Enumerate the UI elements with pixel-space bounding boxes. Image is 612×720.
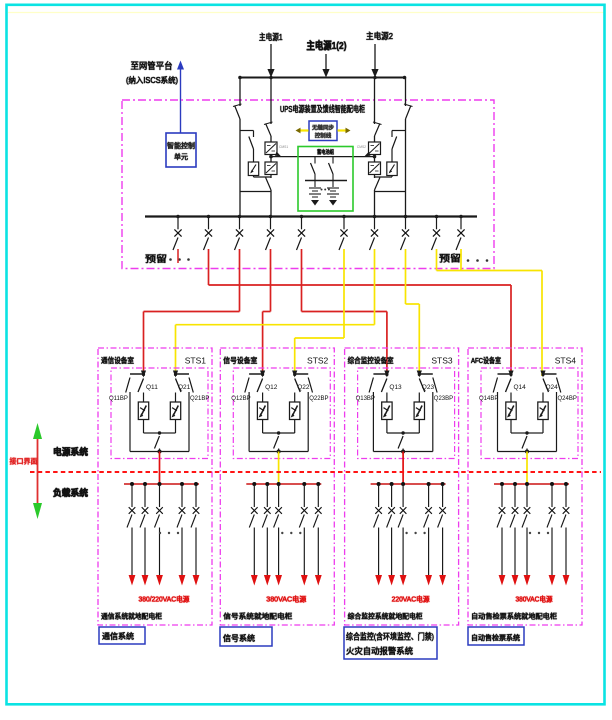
label (纳入ISCS系统) — [126, 75, 178, 85]
switch UPS1 static-bypass isolator — [249, 137, 254, 150]
svg-text:Q24: Q24 — [546, 384, 559, 391]
cabinet 1 outer dashed box — [98, 348, 212, 625]
svg-text:综合监控系统就地配电柜: 综合监控系统就地配电柜 — [348, 612, 423, 621]
cabinet 2 label 信号设备室 — [223, 355, 257, 365]
cabinet 4 branch breaker at x=515.0 — [510, 484, 518, 586]
svg-text:Q23BP: Q23BP — [434, 396, 453, 402]
svg-text:STS1: STS1 — [185, 356, 207, 366]
cabinet 1 STS output join — [144, 420, 176, 435]
cabinet 1 voltage label 380/220VAC电源 — [139, 595, 190, 604]
cabinet 3 branch breaker at x=428.6 — [424, 484, 432, 586]
cabinet 2 outer dashed box — [220, 348, 334, 625]
cabinet 3 branch breaker at x=378.6 — [374, 484, 382, 586]
cabinet 3 STS inner dashed box — [358, 368, 455, 459]
svg-text:主电源1(2): 主电源1(2) — [307, 39, 347, 52]
svg-text:Q22: Q22 — [297, 384, 310, 391]
cabinet 2 branch breaker at x=304.3 — [299, 484, 307, 586]
cabinet 2 label STS2 — [307, 356, 329, 366]
switch Q23 — [419, 379, 434, 403]
wire dc link bus — [271, 152, 375, 157]
cabinet 1 branch breaker at x=145.0 — [140, 484, 148, 586]
cabinet 3 branch ellipsis — [405, 532, 425, 534]
wire UPS1 main vertical — [270, 78, 272, 217]
svg-text:Q13: Q13 — [389, 384, 402, 391]
svg-text:STS4: STS4 — [555, 356, 577, 366]
feeder breaker at x=344 — [339, 217, 348, 251]
cabinet 1 output switch — [155, 436, 162, 454]
svg-text:Q24BP: Q24BP — [558, 396, 577, 402]
switch UPS1 input isolator — [264, 122, 273, 136]
svg-text:380VAC电源: 380VAC电源 — [266, 595, 306, 604]
svg-text:Q14BP: Q14BP — [479, 396, 498, 402]
wire UPS2 bypass vertical — [405, 78, 407, 217]
cabinet 2 STS inner dashed box — [233, 368, 330, 459]
switch Q13BP bypass — [356, 378, 375, 452]
cabinet 1 branch breaker at x=196.0 — [191, 484, 199, 586]
cabinet 4 branch ellipsis — [529, 532, 549, 534]
cabinet 2 bypass bottom rail — [249, 451, 308, 453]
sync control box 无缝同步控制线 — [309, 121, 337, 141]
svg-text:综合监控(含环境监控、门禁): 综合监控(含环境监控、门禁) — [346, 632, 434, 642]
faint yellow margin line — [8, 12, 604, 14]
dc node UPS1 — [269, 155, 273, 159]
interface arrow assembly — [33, 423, 42, 519]
label 至网管平台 — [131, 60, 173, 71]
svg-text:信号系统就地配电柜: 信号系统就地配电柜 — [223, 612, 292, 621]
cabinet 4 branch breaker at x=527.0 — [522, 484, 530, 586]
svg-text:单元: 单元 — [174, 152, 188, 161]
cabinet 3 input brackets — [373, 373, 432, 375]
svg-text:至网管平台: 至网管平台 — [131, 60, 173, 71]
cabinet 1 label STS1 — [185, 356, 207, 366]
intelligent control unit box 智能控制单元 — [166, 133, 196, 167]
wire source2 feed with arrow — [371, 44, 378, 78]
cabinet 3 voltage label 220VAC电源 — [392, 595, 430, 604]
switch Q24 — [543, 379, 558, 403]
wire source1 feed with arrow — [267, 44, 274, 78]
thyristor box Q12 — [257, 402, 267, 420]
svg-text:(纳入ISCS系统): (纳入ISCS系统) — [126, 75, 178, 85]
battery dc busbar — [305, 180, 347, 182]
cabinet 1 name label 通信系统就地配电柜 — [101, 612, 162, 621]
cabinet 3 output switch — [398, 436, 405, 454]
wire UPS1 bypass bottom tie — [240, 191, 271, 193]
switch UPS1 bypass isolator — [233, 104, 242, 119]
thyristor box Q24 — [538, 402, 548, 420]
UPS main cabinet dashed enclosure — [122, 100, 494, 269]
svg-text:火灾自动报警系统: 火灾自动报警系统 — [346, 646, 413, 656]
cabinet 3 system tag box — [344, 627, 437, 659]
label rectifier CMS2 — [357, 145, 366, 149]
svg-text:Q12: Q12 — [265, 384, 278, 391]
cabinet 1 branch breaker at x=182.0 — [177, 484, 185, 586]
cabinet 2 voltage label 380VAC电源 — [266, 595, 306, 604]
switch Q13 — [381, 379, 402, 403]
cabinet 1 output wire to LV bus — [159, 452, 161, 485]
yellow sync arrow left — [296, 128, 309, 134]
cabinet 4 bypass bottom rail — [498, 451, 557, 453]
battery bank box 蓄电池组 — [298, 147, 353, 212]
svg-text:AFC设备室: AFC设备室 — [471, 355, 501, 365]
label source 主电源1 — [259, 32, 283, 42]
cabinet 1 label 通信设备室 — [101, 355, 134, 365]
cabinet 4 STS inner dashed box — [481, 368, 578, 459]
switch Q12 — [257, 379, 278, 403]
cabinet 2 branch breaker at x=267.3 — [262, 484, 270, 586]
svg-text:蓄电池组: 蓄电池组 — [317, 148, 334, 156]
label source 主电源1(2) — [307, 39, 347, 52]
thyristor box Q21 — [170, 402, 180, 420]
svg-text:380VAC电源: 380VAC电源 — [516, 595, 553, 604]
cabinet 4 system tag box — [468, 627, 524, 645]
cabinet 2 branch breaker at x=318.3 — [313, 484, 321, 586]
label 预留 left — [145, 253, 190, 264]
svg-text:UPS电源装置及馈线智能配电柜: UPS电源装置及馈线智能配电柜 — [280, 104, 365, 114]
cabinet 4 label STS4 — [555, 356, 577, 366]
cabinet 1 system tag box — [99, 627, 145, 644]
svg-text:220VAC电源: 220VAC电源 — [392, 595, 430, 604]
wire UPS2 static-bypass branch — [392, 131, 406, 163]
rectifier box UPS2 — [369, 142, 381, 155]
svg-text:Q21BP: Q21BP — [190, 396, 209, 402]
svg-text:自动售检票系统: 自动售检票系统 — [471, 633, 520, 642]
cabinet 4 label AFC设备室 — [471, 355, 501, 365]
interface boundary red dashed line — [30, 471, 601, 473]
svg-text:通信设备室: 通信设备室 — [101, 355, 134, 365]
cabinet 2 output wire to LV bus — [278, 452, 280, 485]
svg-text:Q12BP: Q12BP — [231, 396, 250, 402]
cabinet 1 branch ellipsis — [159, 532, 179, 534]
wire red feeder to cabinet2 — [263, 249, 271, 376]
thyristor box Q14 — [506, 402, 516, 420]
wire source1(2) feed with arrow — [322, 54, 329, 78]
switch Q24BP bypass — [557, 378, 577, 452]
svg-text:CMS2: CMS2 — [357, 145, 366, 149]
wire UPS1 bypass vertical — [239, 78, 241, 217]
switch Q14BP bypass — [479, 378, 498, 452]
wire UPS1 static-bypass branch — [240, 131, 254, 163]
feeder breaker at x=374.5 — [370, 217, 379, 251]
cabinet 2 branch ellipsis — [281, 532, 301, 534]
switch Q12BP bypass — [231, 378, 250, 452]
wire UPS2 bypass bottom tie — [375, 191, 406, 193]
svg-text:负载系统: 负载系统 — [53, 487, 88, 498]
cabinet 1 input junctions — [141, 371, 178, 378]
wire yellow feeder to cabinet1 — [176, 249, 375, 376]
svg-text:Q21: Q21 — [178, 384, 191, 391]
cabinet 1 local LV red bus — [124, 482, 199, 486]
wire yellow feeder to cabinet3 — [406, 249, 420, 376]
switch UPS2 static-bypass isolator — [392, 137, 397, 150]
cabinet 2 output switch — [274, 436, 281, 454]
cabinet 4 branch breaker at x=502.0 — [497, 484, 505, 586]
battery cells — [309, 181, 339, 206]
cabinet 4 branch breaker at x=552.0 — [547, 484, 555, 586]
feeder breaker at x=301.5 — [297, 217, 306, 251]
svg-text:STS3: STS3 — [431, 356, 453, 366]
inverter box UPS2 — [369, 162, 381, 175]
cabinet 3 bypass bottom rail — [373, 451, 432, 453]
wire static box to inverter output — [254, 176, 272, 178]
cabinet 4 local LV red bus — [494, 482, 569, 486]
switch Q14 — [506, 379, 527, 403]
svg-text:主电源1: 主电源1 — [259, 32, 283, 42]
svg-text:接口界面: 接口界面 — [10, 457, 38, 466]
svg-text:电源系统: 电源系统 — [53, 446, 88, 457]
svg-text:主电源2: 主电源2 — [366, 31, 393, 41]
wire yellow feeders to cabinet4 — [437, 249, 543, 376]
svg-text:自动售检票系统就地配电柜: 自动售检票系统就地配电柜 — [471, 612, 557, 621]
feeder breaker at x=270.5 — [266, 217, 275, 251]
main distribution bus — [145, 215, 477, 219]
cabinet 1 STS inner dashed box — [111, 368, 208, 459]
switch Q11BP bypass — [109, 378, 130, 452]
cabinet 3 outer dashed box — [345, 348, 459, 625]
inverter box UPS1 — [265, 162, 277, 175]
svg-text:Q14: Q14 — [514, 384, 527, 391]
switch Q21BP bypass — [189, 378, 209, 452]
cabinet 1 input brackets — [130, 373, 189, 375]
cabinet 4 input brackets — [498, 373, 557, 375]
svg-text:Q13BP: Q13BP — [356, 396, 375, 402]
svg-text:Q11: Q11 — [146, 384, 158, 391]
svg-text:无缝同步: 无缝同步 — [312, 124, 335, 132]
cabinet 3 STS output join — [387, 420, 419, 435]
switch UPS2 output isolator — [375, 178, 380, 191]
svg-text:控制线: 控制线 — [315, 132, 332, 140]
svg-text:智能控制: 智能控制 — [167, 141, 195, 150]
label rectifier CMS1 — [279, 145, 288, 149]
cabinet 2 STS output join — [263, 420, 295, 435]
svg-text:信号设备室: 信号设备室 — [223, 355, 257, 365]
switch Q21 — [176, 379, 191, 403]
rectifier box UPS1 — [265, 142, 277, 155]
wire yellow feeder to cabinet2 — [295, 249, 344, 376]
cabinet 2 branch breaker at x=254.3 — [249, 484, 257, 586]
label 预留 right — [439, 253, 488, 264]
thyristor box Q23 — [414, 402, 424, 420]
top incoming bus — [238, 76, 406, 80]
svg-text:通信系统: 通信系统 — [102, 631, 134, 641]
cabinet 4 name label 自动售检票系统就地配电柜 — [471, 612, 557, 621]
cabinet 4 outer dashed box — [468, 348, 582, 625]
cabinet 3 branch breaker at x=442.6 — [438, 484, 446, 586]
cabinet 2 system tag box — [220, 627, 272, 646]
cabinet 3 local LV red bus — [371, 482, 446, 486]
cabinet 2 name label 信号系统就地配电柜 — [223, 612, 292, 621]
svg-text:预留: 预留 — [439, 253, 461, 264]
thyristor box Q22 — [290, 402, 300, 420]
cabinet 1 branch breaker at x=132.0 — [127, 484, 135, 586]
feeder breaker at x=436.5 — [432, 217, 441, 251]
cabinet 3 branch breaker at x=391.6 — [387, 484, 395, 586]
svg-text:CMS1: CMS1 — [279, 145, 288, 149]
svg-text:STS2: STS2 — [307, 356, 329, 366]
feeder breaker at x=178 — [173, 217, 182, 251]
cabinet 4 input junctions — [508, 371, 545, 378]
switch UPS2 input isolator — [373, 122, 382, 136]
label 负载系统 — [53, 487, 88, 498]
switch Q23BP bypass — [433, 378, 453, 452]
thyristor box Q11 — [138, 402, 148, 420]
battery feeder switches — [311, 157, 334, 181]
cabinet 3 label 综合监控设备室 — [348, 355, 394, 365]
cabinet 4 output switch — [522, 436, 529, 454]
svg-text:380/220VAC电源: 380/220VAC电源 — [139, 595, 190, 604]
label source 主电源2 — [366, 31, 393, 41]
reserved feeder stub red — [177, 249, 179, 263]
title label UPS电源装置及馈线智能配电柜 — [280, 104, 365, 114]
battery ellipsis dots — [321, 189, 330, 191]
svg-text:综合监控设备室: 综合监控设备室 — [348, 355, 394, 365]
cabinet 2 local LV red bus — [246, 482, 321, 486]
wire UPS2 main vertical — [374, 78, 376, 217]
cabinet 4 voltage label 380VAC电源 — [516, 595, 553, 604]
switch UPS2 bypass isolator — [404, 104, 413, 119]
cabinet 4 output wire to LV bus — [526, 452, 528, 485]
switch Q22 — [295, 379, 310, 403]
cabinet 3 name label 综合监控系统就地配电柜 — [348, 612, 423, 621]
wire red feeder to cabinet3 — [302, 249, 387, 376]
wire static box to inverter output right — [375, 176, 393, 178]
cabinet 3 branch breaker at x=403.1 — [398, 484, 406, 586]
cabinet 1 branch breaker at x=159.5 — [155, 484, 163, 586]
feeder breaker at x=405.5 — [401, 217, 410, 251]
cabinet 2 branch breaker at x=278.6 — [274, 484, 282, 586]
yellow sync arrow right — [338, 128, 351, 134]
thyristor box Q13 — [382, 402, 392, 420]
static switch box UPS1 — [248, 162, 258, 176]
svg-text:Q11BP: Q11BP — [109, 396, 128, 402]
cabinet 1 bypass bottom rail — [130, 451, 189, 453]
wire red feeder to cabinet4 — [209, 249, 512, 376]
feeder breaker at x=239.5 — [235, 217, 244, 251]
cabinet 3 input junctions — [384, 371, 422, 378]
wire control unit uplink blue arrow — [177, 61, 184, 134]
switch Q22BP bypass — [308, 378, 328, 452]
cabinet 2 input brackets — [249, 373, 308, 375]
static switch box UPS2 — [387, 162, 397, 176]
switch UPS1 output isolator — [266, 178, 271, 191]
dc node UPS2 — [373, 155, 377, 159]
switch Q11 — [138, 379, 158, 403]
cabinet 4 branch breaker at x=566.0 — [561, 484, 569, 586]
svg-text:Q22BP: Q22BP — [309, 396, 328, 402]
svg-text:Q23: Q23 — [422, 384, 435, 391]
svg-text:预留: 预留 — [145, 253, 167, 264]
cabinet 3 label STS3 — [431, 356, 453, 366]
cabinet 4 STS output join — [511, 420, 543, 435]
svg-text:信号系统: 信号系统 — [223, 633, 255, 643]
label 接口界面 — [10, 457, 38, 466]
cabinet 2 input junctions — [260, 371, 297, 378]
label 电源系统 — [53, 446, 88, 457]
wire red feeder to cabinet1 — [144, 249, 240, 376]
cabinet 3 output wire to LV bus — [402, 452, 404, 485]
feeder breaker at x=461 — [456, 217, 465, 251]
svg-text:通信系统就地配电柜: 通信系统就地配电柜 — [101, 612, 162, 621]
feeder breaker at x=208.5 — [204, 217, 213, 251]
